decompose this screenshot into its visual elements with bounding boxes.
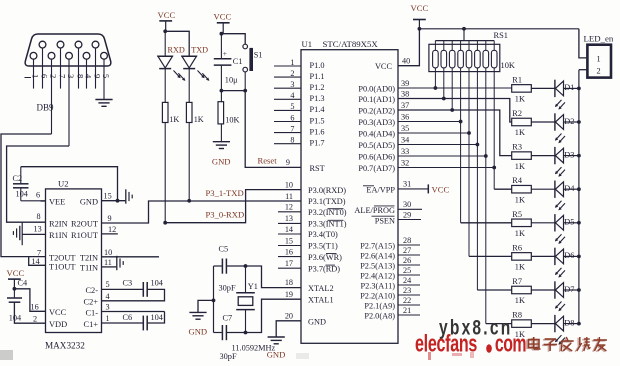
svg-text:1: 1 bbox=[290, 58, 294, 67]
svg-text:+: + bbox=[223, 49, 227, 58]
svg-text:32: 32 bbox=[401, 158, 409, 167]
resistor R2 1K bbox=[512, 109, 532, 137]
svg-text:3: 3 bbox=[290, 80, 294, 89]
resistor R1 1K bbox=[512, 75, 532, 103]
resistor R6 1K bbox=[512, 243, 532, 271]
svg-text:31: 31 bbox=[403, 179, 411, 188]
capacitor C3 104 between MAX pins 5 and 4 bbox=[102, 279, 165, 301]
svg-text:P1.6: P1.6 bbox=[310, 127, 325, 136]
svg-text:GND: GND bbox=[267, 350, 286, 360]
svg-text:VDD: VDD bbox=[49, 320, 67, 329]
svg-text:30: 30 bbox=[403, 200, 411, 209]
svg-text:P2.0(A8): P2.0(A8) bbox=[364, 311, 395, 320]
svg-text:P3.6(WR): P3.6(WR) bbox=[308, 253, 342, 262]
svg-text:P3.4(T0): P3.4(T0) bbox=[308, 230, 338, 239]
svg-text:1K: 1K bbox=[515, 229, 525, 238]
svg-text:MAX3232: MAX3232 bbox=[45, 341, 85, 351]
svg-text:17: 17 bbox=[285, 259, 293, 268]
svg-text:R5: R5 bbox=[512, 210, 522, 219]
LED D5 bbox=[531, 214, 581, 244]
MAX pin 11 stub with sideways ground bbox=[102, 256, 124, 270]
svg-text:P2.7(A15): P2.7(A15) bbox=[360, 241, 395, 250]
svg-text:ALE/PROG: ALE/PROG bbox=[354, 206, 395, 215]
svg-text:18: 18 bbox=[285, 278, 293, 287]
svg-text:T2OUT: T2OUT bbox=[49, 253, 76, 262]
svg-text:1K: 1K bbox=[515, 95, 525, 104]
svg-text:D8: D8 bbox=[564, 318, 574, 327]
svg-text:1: 1 bbox=[106, 314, 110, 323]
svg-text:39: 39 bbox=[401, 79, 409, 88]
MCU port1 stubs pins 1-8 bbox=[274, 58, 325, 148]
svg-text:P0.6(AD6): P0.6(AD6) bbox=[358, 152, 395, 161]
svg-text:P0.3(AD3): P0.3(AD3) bbox=[358, 118, 395, 127]
svg-text:Y1: Y1 bbox=[248, 282, 258, 291]
svg-text:5: 5 bbox=[101, 74, 111, 78]
connector LED_en bbox=[584, 34, 614, 78]
svg-text:1K: 1K bbox=[515, 263, 525, 272]
svg-text:P0.1(AD1): P0.1(AD1) bbox=[358, 95, 395, 104]
resistor R8 1K bbox=[512, 311, 532, 339]
svg-text:22: 22 bbox=[403, 296, 411, 305]
svg-text:15: 15 bbox=[104, 192, 112, 201]
svg-text:30pF: 30pF bbox=[219, 284, 236, 293]
left rail of crystal bbox=[212, 266, 216, 333]
svg-text:R7: R7 bbox=[512, 277, 522, 286]
capacitor C1 10u electrolytic bbox=[214, 34, 243, 93]
svg-text:10K: 10K bbox=[501, 61, 515, 70]
svg-text:104: 104 bbox=[151, 279, 164, 288]
ground (sideways) and node at MAX pin 13 R1IN bbox=[13, 222, 45, 245]
svg-text:7: 7 bbox=[58, 74, 68, 78]
resistor R7 1K bbox=[512, 277, 532, 305]
watermark gray fragments bbox=[0, 350, 309, 360]
P0 bus wires to LED resistors bbox=[398, 88, 512, 324]
svg-text:23: 23 bbox=[403, 286, 411, 295]
svg-text:S1: S1 bbox=[254, 51, 263, 60]
MCU pin 20 GND with ground bbox=[267, 311, 326, 359]
svg-text:T2IN: T2IN bbox=[80, 254, 98, 263]
svg-text:1: 1 bbox=[597, 55, 601, 64]
svg-text:P3_1-TXD: P3_1-TXD bbox=[206, 188, 244, 198]
svg-text:16: 16 bbox=[285, 247, 293, 256]
svg-text:GND: GND bbox=[80, 198, 98, 207]
svg-text:104: 104 bbox=[16, 190, 29, 199]
svg-text:16: 16 bbox=[31, 303, 39, 312]
svg-text:GND: GND bbox=[212, 157, 231, 167]
svg-text:C1+: C1+ bbox=[84, 320, 99, 329]
svg-text:1K: 1K bbox=[194, 115, 204, 124]
svg-text:5: 5 bbox=[290, 102, 294, 111]
MCU pin 40 VCC bbox=[375, 29, 419, 71]
svg-text:8: 8 bbox=[37, 212, 41, 221]
svg-text:4: 4 bbox=[106, 292, 110, 301]
LED anode bus bbox=[578, 70, 580, 324]
MCU port3 pins 10-17 bbox=[278, 180, 347, 273]
svg-text:P1.1: P1.1 bbox=[310, 72, 325, 81]
svg-text:C7: C7 bbox=[223, 313, 233, 322]
svg-text:D2: D2 bbox=[564, 117, 574, 126]
wire C2 top to MAX GND pin 15 bbox=[21, 167, 126, 203]
switch S1 pushbutton bbox=[221, 34, 262, 93]
svg-text:P3.1(TXD): P3.1(TXD) bbox=[308, 197, 346, 206]
svg-text:VCC: VCC bbox=[49, 308, 67, 317]
svg-text:10K: 10K bbox=[225, 116, 239, 125]
svg-text:25: 25 bbox=[403, 266, 411, 275]
power VCC of top rail bbox=[411, 3, 429, 29]
svg-text:D7: D7 bbox=[564, 285, 574, 294]
MCU pins 18 19 labels bbox=[285, 278, 334, 305]
svg-text:33: 33 bbox=[401, 147, 409, 156]
LED TXD bbox=[181, 45, 209, 102]
svg-text:1K: 1K bbox=[515, 162, 525, 171]
wire XTAL1 to MCU pin 19 bbox=[246, 299, 302, 332]
svg-text:24: 24 bbox=[403, 276, 411, 285]
svg-text:26: 26 bbox=[403, 256, 411, 265]
svg-text:15: 15 bbox=[285, 236, 293, 245]
svg-text:C3: C3 bbox=[123, 279, 133, 288]
wire MAX R2OUT pin9 to MCU P3.1 (net P3_1-TXD) bbox=[102, 188, 302, 223]
svg-text:P3.2(INT0): P3.2(INT0) bbox=[308, 208, 347, 217]
svg-text:10: 10 bbox=[285, 180, 293, 189]
svg-text:P2.2(A10): P2.2(A10) bbox=[360, 291, 395, 300]
svg-text:34: 34 bbox=[401, 135, 409, 144]
wire DB9 pin2 to MAX T2OUT bbox=[1, 134, 52, 257]
svg-text:D5: D5 bbox=[564, 218, 574, 227]
svg-text:VCC: VCC bbox=[432, 185, 450, 195]
svg-text:P3.7(RD): P3.7(RD) bbox=[308, 264, 340, 273]
svg-text:9: 9 bbox=[286, 158, 290, 167]
watermark red smudges below elecfans bbox=[428, 352, 474, 360]
svg-text:12: 12 bbox=[108, 225, 116, 234]
MAX pin 6 stub bbox=[41, 200, 46, 202]
svg-text:VCC: VCC bbox=[158, 10, 176, 20]
LED D3 bbox=[531, 147, 581, 177]
wire MAX pin 14 T1OUT jog bbox=[29, 257, 46, 266]
svg-text:10: 10 bbox=[104, 248, 112, 257]
svg-text:2: 2 bbox=[33, 315, 37, 324]
svg-text:P0.0(AD0): P0.0(AD0) bbox=[358, 84, 395, 93]
svg-text:30pF: 30pF bbox=[220, 352, 237, 361]
net Reset wire to MCU RST bbox=[245, 91, 301, 168]
svg-text:35: 35 bbox=[401, 124, 409, 133]
svg-text:P2.5(A13): P2.5(A13) bbox=[360, 261, 395, 270]
resistor R4 1K bbox=[512, 176, 532, 204]
svg-text:R6: R6 bbox=[512, 243, 522, 252]
VCC rail wire to LED_en bbox=[418, 27, 579, 31]
LED D6 bbox=[531, 248, 581, 278]
ground at DB9 pin 5 bbox=[95, 100, 112, 107]
svg-text:U1: U1 bbox=[302, 39, 313, 49]
watermark ybx8.cn bbox=[439, 315, 512, 339]
svg-text:1K: 1K bbox=[515, 195, 525, 204]
svg-text:2: 2 bbox=[597, 67, 601, 76]
svg-text:11: 11 bbox=[104, 258, 112, 267]
resistor R3 1K bbox=[512, 143, 532, 171]
svg-text:R1: R1 bbox=[512, 75, 522, 84]
svg-text:T1OUT: T1OUT bbox=[49, 263, 76, 272]
svg-text:36: 36 bbox=[401, 112, 409, 121]
wire rail to LED_en pin 1 bbox=[579, 29, 588, 58]
power VCC above RXD/TXD LEDs bbox=[158, 10, 176, 33]
svg-text:R3: R3 bbox=[512, 143, 522, 152]
svg-text:C6: C6 bbox=[123, 313, 133, 322]
crystal Y1 11.0592MHz bbox=[232, 264, 276, 352]
capacitor C6 104 between MAX pins 3 and 1 bbox=[102, 312, 165, 331]
resistor network RS1 10K bbox=[429, 29, 515, 72]
svg-text:P2.3(A11): P2.3(A11) bbox=[361, 281, 396, 290]
svg-text:GND: GND bbox=[189, 327, 208, 337]
MCU pin 29 PSEN stub bbox=[372, 210, 422, 225]
svg-text:4: 4 bbox=[290, 91, 294, 100]
svg-text:P0.5(AD5): P0.5(AD5) bbox=[358, 141, 395, 150]
svg-text:P3.5(T1): P3.5(T1) bbox=[308, 242, 338, 251]
MCU pin 31 EA/VPP to VCC bbox=[363, 179, 449, 194]
svg-text:elecfans: elecfans bbox=[415, 330, 477, 357]
LED D4 bbox=[531, 181, 581, 211]
svg-text:P3_0-RXD: P3_0-RXD bbox=[206, 210, 245, 220]
MAX3232 pin numbers bbox=[31, 191, 117, 324]
svg-text:P1.7: P1.7 bbox=[310, 139, 325, 148]
svg-text:U2: U2 bbox=[58, 179, 69, 189]
svg-text:1K: 1K bbox=[515, 296, 525, 305]
RS1 pull-up verticals to P0 rows bbox=[434, 68, 497, 324]
svg-text:6: 6 bbox=[36, 191, 40, 200]
svg-text:C2+: C2+ bbox=[84, 298, 99, 307]
svg-text:38: 38 bbox=[401, 89, 409, 98]
power VCC above C1/S1 bbox=[214, 12, 232, 36]
LED D2 bbox=[531, 113, 581, 143]
DB9 pin wires with pin numbers bbox=[25, 48, 112, 146]
svg-text:R1OUT: R1OUT bbox=[71, 231, 98, 240]
svg-text:19: 19 bbox=[285, 290, 293, 299]
svg-text:C1-: C1- bbox=[85, 308, 98, 317]
svg-text:RST: RST bbox=[310, 164, 325, 173]
svg-text:2: 2 bbox=[49, 74, 59, 78]
capacitor C5 30pF bbox=[214, 245, 246, 293]
svg-text:9: 9 bbox=[93, 74, 103, 78]
svg-text:20: 20 bbox=[285, 311, 293, 320]
svg-text:R2: R2 bbox=[512, 109, 522, 118]
wire DB9 pin3 to MAX R2IN bbox=[7, 146, 69, 222]
resistor 1K below TXD LED bbox=[186, 102, 203, 124]
wire XTAL2 to MCU pin 18 bbox=[246, 266, 302, 288]
svg-text:P2.6(A14): P2.6(A14) bbox=[360, 251, 395, 260]
wire RXD chain to net P3_0-RXD bbox=[163, 123, 167, 225]
wire LED_en pin 2 to LED bus bbox=[579, 69, 588, 71]
svg-text:104: 104 bbox=[151, 313, 164, 322]
svg-text:C2-: C2- bbox=[85, 286, 98, 295]
svg-text:EA/VPP: EA/VPP bbox=[366, 186, 395, 195]
svg-text:8: 8 bbox=[290, 136, 294, 145]
svg-text:40: 40 bbox=[402, 56, 410, 65]
svg-text:P2.1(A9): P2.1(A9) bbox=[364, 301, 395, 310]
power VCC with capacitor C4 104 at MAX VCC/VDD bbox=[7, 268, 46, 323]
svg-text:PSEN: PSEN bbox=[375, 216, 395, 225]
svg-text:7: 7 bbox=[37, 248, 41, 257]
svg-text:C5: C5 bbox=[219, 245, 229, 254]
svg-text:104: 104 bbox=[9, 314, 22, 323]
ground of crystal rail bbox=[189, 300, 214, 336]
svg-text:27: 27 bbox=[403, 246, 411, 255]
svg-text:10μ: 10μ bbox=[225, 76, 238, 85]
svg-text:2: 2 bbox=[290, 69, 294, 78]
capacitor C7 30pF bbox=[214, 313, 246, 361]
resistor R5 1K bbox=[512, 210, 532, 238]
LED D8 bbox=[531, 315, 581, 345]
svg-text:LED_en: LED_en bbox=[584, 34, 614, 44]
svg-text:RXD: RXD bbox=[168, 45, 185, 54]
svg-text:R2IN: R2IN bbox=[49, 220, 68, 229]
svg-text:12: 12 bbox=[285, 203, 293, 212]
svg-text:7: 7 bbox=[290, 124, 294, 133]
svg-text:6: 6 bbox=[290, 113, 294, 122]
svg-text:Reset: Reset bbox=[258, 156, 278, 166]
svg-text:P1.5: P1.5 bbox=[310, 116, 325, 125]
svg-text:D1: D1 bbox=[564, 83, 574, 92]
svg-text:VEE: VEE bbox=[49, 198, 65, 207]
MCU port2 stubs pins 28-21 bbox=[360, 236, 420, 321]
svg-text:29: 29 bbox=[403, 210, 411, 219]
svg-text:VCC: VCC bbox=[214, 12, 232, 22]
ground (sideways) at MAX pin 15 bbox=[126, 189, 132, 203]
svg-text:P1.3: P1.3 bbox=[310, 94, 325, 103]
LED D7 bbox=[531, 281, 581, 311]
svg-text:P0.4(AD4): P0.4(AD4) bbox=[358, 129, 395, 138]
LED D1 bbox=[531, 80, 581, 110]
svg-text:9: 9 bbox=[108, 214, 112, 223]
wire TXD chain to net P3_1-TXD bbox=[187, 123, 191, 203]
svg-text:P1.2: P1.2 bbox=[310, 83, 325, 92]
svg-text:RS1: RS1 bbox=[494, 31, 508, 40]
svg-text:11: 11 bbox=[285, 192, 293, 201]
svg-text:C4: C4 bbox=[18, 279, 29, 288]
svg-text:3: 3 bbox=[106, 303, 110, 312]
watermark elecfans.com bbox=[415, 330, 526, 357]
MCU port0 pin labels 39-32 bbox=[358, 79, 409, 173]
svg-text:XTAL2: XTAL2 bbox=[308, 284, 334, 293]
wire VCC to TXD branch bbox=[165, 31, 189, 56]
svg-text:C1: C1 bbox=[233, 57, 243, 66]
svg-text:13: 13 bbox=[285, 214, 293, 223]
svg-text:28: 28 bbox=[403, 236, 411, 245]
svg-text:1: 1 bbox=[31, 74, 41, 78]
resistor 1K below RXD LED bbox=[162, 102, 179, 124]
svg-text:P1.4: P1.4 bbox=[310, 105, 326, 114]
svg-text:T1IN: T1IN bbox=[80, 264, 98, 273]
svg-text:13: 13 bbox=[34, 225, 42, 234]
svg-text:14: 14 bbox=[285, 225, 293, 234]
svg-text:P0.2(AD2): P0.2(AD2) bbox=[358, 106, 395, 115]
MCU pin 9 RST label bbox=[286, 158, 325, 173]
svg-text:XTAL1: XTAL1 bbox=[308, 296, 334, 305]
svg-text:D3: D3 bbox=[564, 150, 574, 159]
svg-text:1K: 1K bbox=[515, 128, 525, 137]
svg-text:VCC: VCC bbox=[7, 268, 25, 278]
svg-text:VCC: VCC bbox=[411, 3, 429, 13]
resistor 10K of reset bbox=[218, 91, 239, 142]
svg-text:R8: R8 bbox=[512, 311, 522, 320]
connector DB9 bbox=[25, 34, 111, 113]
svg-text:P0.7(AD7): P0.7(AD7) bbox=[358, 164, 395, 173]
IC U1 STC/AT89X5X bbox=[301, 39, 398, 343]
svg-text:VCC: VCC bbox=[375, 62, 393, 71]
LED RXD bbox=[157, 31, 185, 102]
MCU pin 30 ALE/PROG stub bbox=[354, 200, 422, 215]
svg-text:D4: D4 bbox=[564, 184, 575, 193]
svg-text:com: com bbox=[495, 330, 526, 357]
MAX pin 12 stub bbox=[102, 233, 118, 235]
MAX pin 10 stub bbox=[102, 256, 160, 258]
svg-text:D6: D6 bbox=[564, 251, 574, 260]
svg-text:GND: GND bbox=[308, 317, 326, 326]
watermark chinese characters bbox=[527, 337, 607, 352]
svg-text:R2OUT: R2OUT bbox=[71, 220, 98, 229]
svg-text:21: 21 bbox=[403, 306, 411, 315]
svg-text:37: 37 bbox=[401, 101, 409, 110]
svg-text:1K: 1K bbox=[169, 115, 179, 124]
svg-text:TXD: TXD bbox=[191, 45, 208, 54]
svg-text:5: 5 bbox=[106, 280, 110, 289]
IC U2 MAX3232 bbox=[45, 179, 102, 351]
svg-text:P3.3(INT1): P3.3(INT1) bbox=[308, 220, 347, 229]
svg-text:P1.0: P1.0 bbox=[310, 61, 325, 70]
svg-text:3: 3 bbox=[66, 74, 76, 78]
svg-text:STC/AT89X5X: STC/AT89X5X bbox=[323, 39, 379, 49]
capacitor C2 104 bbox=[13, 167, 46, 201]
svg-text:P2.4(A12): P2.4(A12) bbox=[360, 271, 395, 280]
svg-text:6: 6 bbox=[40, 74, 50, 78]
svg-text:P3.0(RXD): P3.0(RXD) bbox=[308, 186, 346, 195]
svg-text:R4: R4 bbox=[512, 176, 523, 185]
svg-text:R1IN: R1IN bbox=[49, 231, 68, 240]
net P3_0-RXD wire to MCU P3.0 bbox=[165, 190, 301, 223]
ground below 10K bbox=[212, 142, 231, 167]
